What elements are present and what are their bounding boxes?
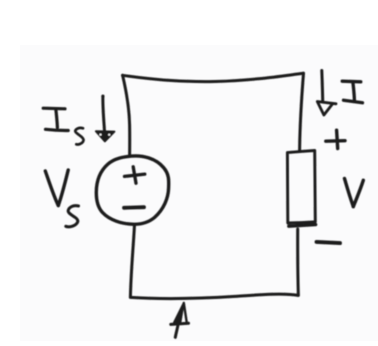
minus sign (right, below resistor) [317, 242, 341, 243]
label V (right of resistor) [345, 179, 364, 207]
source V_s (circle) [96, 156, 168, 224]
resistor R (load box) [287, 151, 315, 227]
bottom reference arrow (upward) [171, 303, 189, 338]
wire right vertical lower (resistor to bottom node) [296, 229, 300, 295]
wire top [123, 73, 304, 81]
label V_s with subscript [45, 170, 78, 227]
wire bottom [130, 294, 298, 299]
current arrow I (top right, downward) [317, 71, 336, 116]
label I_s with subscript [43, 108, 83, 144]
wire source bottom to bottom-left corner [130, 225, 134, 298]
wire left vertical (top node to source) [123, 75, 130, 156]
source current arrow Is (downward) [96, 95, 115, 142]
plus sign (right, above resistor) [326, 130, 345, 148]
minus sign inside source [124, 205, 144, 209]
wire right vertical upper (top node to resistor) [300, 73, 304, 151]
label I (right) [342, 81, 362, 103]
plus sign inside source [125, 167, 145, 183]
